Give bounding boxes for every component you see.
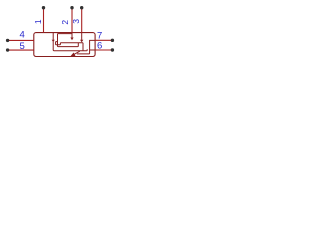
pin 7 end dot xyxy=(111,39,114,42)
pin 2 internal arrow xyxy=(71,33,73,38)
pin 4 end dot xyxy=(6,39,9,42)
pin 3 wire (top, vertical) xyxy=(81,8,83,33)
pin 6 wire (right, horizontal) xyxy=(95,49,112,51)
svg-text:1: 1 xyxy=(33,19,43,24)
pin 2 wire (top, vertical) xyxy=(71,8,73,33)
svg-text:3: 3 xyxy=(71,19,81,24)
inner graphic: upper meander (lid and steps) xyxy=(58,34,79,47)
inner graphic: middle horizontal rail xyxy=(60,42,83,44)
pin 4 wire (left, horizontal) xyxy=(8,39,34,41)
pin 5 end dot xyxy=(6,48,9,51)
wiper arrow (diagonal, pointing lower-left) xyxy=(74,51,80,55)
svg-text:6: 6 xyxy=(97,40,102,51)
inner graphic: tee vertical joining bottom rail to middle rail xyxy=(82,43,84,51)
pin 1 wire (top, vertical) xyxy=(43,8,45,33)
pin 5 wire (left, horizontal) xyxy=(8,49,34,51)
pin 1 end dot xyxy=(42,6,45,9)
pin 6 end dot xyxy=(111,48,114,51)
pin 3 end dot xyxy=(80,6,83,9)
inner graphic: left slider rail (vertical with bottom rail to right corner) xyxy=(53,33,87,51)
component body U1 (rounded rectangle outline) xyxy=(34,33,95,57)
inner graphic: small interlock meander xyxy=(56,42,61,45)
pin 7 wire (right, horizontal) xyxy=(95,39,112,41)
pin 2 end dot xyxy=(70,6,73,9)
inner graphic: arrowhead on left rail line xyxy=(52,40,55,42)
svg-text:2: 2 xyxy=(60,20,70,25)
right internal bus connecting pins 6 and 7 xyxy=(77,40,95,54)
svg-text:5: 5 xyxy=(19,41,24,52)
pin 3 internal arrow xyxy=(81,33,83,40)
svg-text:4: 4 xyxy=(19,29,24,40)
pin 6 internal stub xyxy=(90,49,96,51)
